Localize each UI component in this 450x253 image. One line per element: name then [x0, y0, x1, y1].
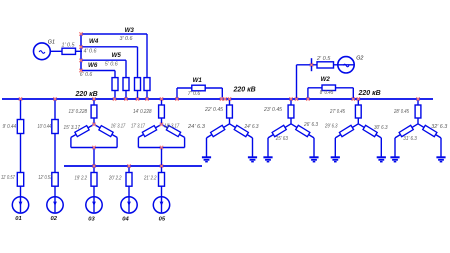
value label 1' 0.5 — [62, 42, 75, 48]
resistor 21 — [159, 173, 165, 187]
wire: left vertical between W3..W6 — [80, 33, 82, 71]
label W4 — [89, 38, 99, 45]
value label 20' 2.2 — [108, 175, 122, 181]
value label 22' 0.45 — [204, 107, 223, 113]
value label 13' ... — [69, 109, 88, 115]
resistor split right — [99, 126, 113, 137]
svg-text:17′ 3.17: 17′ 3.17 — [131, 124, 145, 130]
value label 28' 0.45 — [393, 109, 409, 115]
svg-text:W1: W1 — [193, 77, 203, 84]
junction marks on main bus — [19, 97, 420, 100]
value label 31' 6.3 — [403, 136, 417, 142]
svg-text:2′ 0.5: 2′ 0.5 — [316, 56, 331, 62]
wire: to load 04 — [128, 186, 130, 197]
wire: to load 01 — [20, 186, 22, 197]
svg-text:G2: G2 — [356, 55, 363, 61]
svg-text:14′ 0.228: 14′ 0.228 — [133, 109, 152, 115]
resistor 7 (W1, X=0.6) — [192, 85, 205, 91]
value label 3' 0.6 — [120, 36, 133, 42]
wire: to split node — [93, 118, 95, 124]
wire: resistor 3 to bus — [146, 91, 148, 100]
junction mark T2 split node — [160, 123, 163, 126]
wire: between resistors 02 — [54, 134, 56, 173]
resistor 5 (W5, X=0.6) — [123, 78, 129, 91]
svg-text:W3: W3 — [125, 27, 135, 34]
ground left S2 — [263, 157, 272, 161]
label 02 — [51, 216, 58, 222]
label 04 — [122, 216, 129, 222]
value label 24' 6.3 right — [244, 124, 259, 130]
label 220 kV left — [75, 91, 98, 98]
value label 7' 0.6 — [188, 91, 201, 97]
svg-text:32′ 6.3: 32′ 6.3 — [431, 124, 447, 130]
wire: bus to resistor S4 — [417, 99, 419, 105]
wire: split right branch T2 — [162, 124, 185, 147]
value label 4' 0.6 — [84, 48, 97, 54]
svg-text:10′ 0.44: 10′ 0.44 — [38, 124, 52, 130]
svg-text:6′ 0.6: 6′ 0.6 — [80, 72, 93, 78]
wire: middle bus to resistor 21 — [161, 166, 163, 173]
junction marks on left vertical — [79, 32, 82, 72]
value label 2' 0.5 — [316, 56, 331, 62]
resistor 02 upper — [52, 120, 58, 134]
value label 11&#8242; 0.57 — [1, 175, 15, 181]
resistor 8 (W2, X=0.45) — [322, 85, 336, 91]
wire: to split node T2 — [161, 118, 163, 124]
wire: middle bus to resistor 19 — [93, 166, 95, 173]
label 01 — [15, 216, 21, 222]
svg-text:20′ 2.2: 20′ 2.2 — [108, 175, 122, 181]
ground right S3 — [377, 157, 386, 161]
svg-text:19′ 2.2: 19′ 2.2 — [75, 175, 88, 181]
resistor 3 (W3, X=0.6) — [144, 78, 150, 91]
wire: to load 02 — [54, 186, 56, 197]
ground right S4 — [436, 157, 445, 161]
label W1 — [193, 77, 203, 84]
ground left S1 — [202, 157, 211, 161]
label G1 — [48, 40, 55, 46]
wire: to load 03 — [93, 186, 95, 197]
value label 10&#8242; 0.44 — [38, 124, 52, 130]
svg-text:11′ 0.57: 11′ 0.57 — [1, 175, 15, 181]
value label 12&#8242; 0.57 — [38, 175, 52, 181]
junction mark G2 wire — [310, 63, 313, 66]
resistor 01 lower — [17, 173, 23, 187]
value label 27' 0.45 — [329, 109, 345, 115]
wire: transformer collector — [71, 147, 117, 149]
line W5 wire — [81, 60, 126, 77]
wire: Y right branch S4 — [418, 124, 441, 157]
generator G2 — [338, 57, 354, 73]
wire: split left branch T2 — [138, 124, 161, 147]
wire: collector to middle bus T2 — [161, 148, 163, 167]
resistor Y right S3 — [363, 125, 377, 136]
svg-text:220 кВ: 220 кВ — [75, 91, 98, 98]
svg-text:27′ 0.45: 27′ 0.45 — [329, 109, 345, 115]
wire: bus to transformer resistor T2 — [161, 99, 163, 105]
ground left S4 — [390, 157, 399, 161]
wire: to load 05 — [161, 186, 163, 197]
svg-text:7′ 0.6: 7′ 0.6 — [188, 91, 201, 97]
svg-text:9′ 0.44: 9′ 0.44 — [3, 124, 17, 130]
wire: split left branch — [71, 124, 94, 147]
generator G1 — [34, 43, 51, 60]
svg-text:04: 04 — [122, 216, 129, 222]
wire: bus to resistor S1 — [229, 99, 231, 105]
wire: Y left branch S3 — [335, 124, 358, 157]
svg-text:31′ 6.3: 31′ 6.3 — [403, 136, 417, 142]
svg-text:18′ 3.17: 18′ 3.17 — [164, 124, 179, 130]
value label 24' 63 left — [187, 124, 205, 130]
value label 5' 0.6 — [105, 62, 118, 68]
svg-text:03: 03 — [88, 216, 95, 222]
ground left S3 — [331, 157, 340, 161]
svg-text:13′ 0.228: 13′ 0.228 — [69, 109, 88, 115]
resistor vertical S1 — [227, 105, 233, 118]
wire: Y left branch S2 — [268, 124, 291, 157]
value label 6' 0.6 — [80, 72, 93, 78]
load 03 — [86, 197, 102, 213]
svg-text:28′ 0.45: 28′ 0.45 — [393, 109, 409, 115]
wire: Y right branch S3 — [358, 124, 381, 157]
wire: resistor 6 to bus — [114, 91, 116, 100]
wire: collector to middle bus — [93, 148, 95, 167]
load 04 — [121, 197, 137, 213]
svg-text:1′ 0.5: 1′ 0.5 — [62, 42, 75, 48]
wire: Y right branch S2 — [291, 124, 314, 157]
load 02 — [47, 197, 63, 213]
svg-text:W2: W2 — [321, 76, 331, 83]
svg-text:24′ 6.3: 24′ 6.3 — [187, 124, 205, 130]
value label 30' 6.3 — [374, 125, 388, 131]
wire: Y right branch S1 — [230, 124, 253, 157]
wire: Y left branch S4 — [395, 124, 418, 157]
svg-text:W6: W6 — [88, 62, 98, 69]
label 03 — [88, 216, 95, 222]
wire: bus to resistor S2 — [290, 99, 292, 105]
wire: bus to resistor S3 — [357, 99, 359, 105]
svg-text:5′ 0.6: 5′ 0.6 — [105, 62, 118, 68]
value label 23' 0.45 — [263, 107, 282, 113]
svg-text:8′ 0.45: 8′ 0.45 — [320, 90, 334, 96]
junction mark T1 collector — [92, 146, 95, 149]
junction marks on middle bus — [92, 164, 163, 167]
svg-text:4′ 0.6: 4′ 0.6 — [84, 48, 97, 54]
wire: split right branch — [94, 124, 117, 147]
wire: to Y node S4 — [417, 118, 419, 124]
resistor 20 — [126, 173, 132, 187]
wire: resistor 4 to bus — [137, 91, 139, 100]
wire: G1 to resistor 1 — [50, 50, 62, 52]
resistor 02 lower — [52, 173, 58, 187]
resistor split left — [75, 126, 89, 137]
value label 17' 3.17 — [131, 124, 145, 130]
value label 8' 0.45 — [320, 90, 334, 96]
resistor 13 (transformer HV) — [91, 105, 97, 118]
svg-text:26′ 6.3: 26′ 6.3 — [303, 122, 318, 128]
line W2 wire — [308, 88, 353, 99]
line W6 wire — [81, 71, 115, 78]
resistor 4 (W4, X=0.6) — [135, 78, 141, 91]
resistor Y right S1 — [234, 125, 248, 136]
svg-text:220 кВ: 220 кВ — [233, 86, 256, 93]
resistor Y right S2 — [296, 125, 310, 136]
junction mark T2 collector — [160, 146, 163, 149]
resistor vertical S3 — [355, 105, 361, 118]
wire: transformer collector T2 — [138, 147, 184, 149]
load 05 — [153, 197, 169, 213]
wire: resistor 1 to node — [76, 50, 83, 52]
value label 16' 3.17 — [111, 124, 126, 130]
resistor vertical S2 — [288, 105, 294, 118]
wire: to Y node S1 — [229, 118, 231, 124]
wire: bus to transformer resistor — [93, 99, 95, 105]
resistor vertical S4 — [415, 105, 421, 118]
value label 15' 3.17 — [64, 125, 81, 131]
wire: between resistors 01 — [20, 134, 22, 173]
line W4 wire — [81, 47, 138, 78]
ground right S1 — [248, 157, 257, 161]
svg-text:02: 02 — [51, 216, 58, 222]
svg-text:22′ 0.45: 22′ 0.45 — [204, 107, 223, 113]
value label 21' 2.2 — [143, 175, 157, 181]
label W6 — [88, 62, 98, 69]
svg-text:12′ 0.57: 12′ 0.57 — [38, 175, 52, 181]
wire: bus to resistor 9& — [20, 99, 22, 120]
wire: bus to resistor 10 — [54, 99, 56, 120]
wire: main 220 kV bus — [2, 98, 433, 100]
svg-text:W5: W5 — [112, 52, 122, 59]
resistor 01 upper — [17, 120, 23, 134]
value label 29' 6.3 — [324, 123, 338, 129]
svg-text:21′ 2.2: 21′ 2.2 — [143, 175, 157, 181]
ground right S2 — [309, 157, 318, 161]
svg-text:3′ 0.6: 3′ 0.6 — [120, 36, 133, 42]
label W2 — [321, 76, 331, 83]
resistor 19 — [91, 173, 97, 187]
wire: to Y node S2 — [290, 118, 292, 124]
resistor 1 (X=0.5) — [62, 48, 76, 54]
resistor 14 (transformer HV) T2 — [159, 105, 165, 118]
wire: resistor 2 to G2 — [334, 64, 355, 66]
svg-text:W4: W4 — [89, 38, 99, 45]
resistor Y left S3 — [339, 125, 353, 136]
svg-text:220 кВ: 220 кВ — [358, 90, 381, 97]
junction mark T1 split node — [92, 123, 95, 126]
resistor split left T2 — [142, 126, 156, 137]
label 220 kV center — [233, 86, 256, 93]
wire: to Y node S3 — [357, 118, 359, 124]
label W5 — [112, 52, 122, 59]
wire: G2 drop to bus — [297, 65, 318, 99]
label 220 kV right — [358, 90, 381, 97]
svg-text:16′ 3.17: 16′ 3.17 — [111, 124, 126, 130]
svg-text:05: 05 — [159, 216, 166, 222]
line W1 wire — [177, 88, 222, 99]
label W3 — [125, 27, 135, 34]
value label 14' ... T2 — [133, 109, 152, 115]
label 05 — [159, 216, 166, 222]
svg-text:29′ 6.3: 29′ 6.3 — [324, 123, 338, 129]
wire: Y left branch S1 — [207, 124, 230, 157]
load 01 — [12, 197, 28, 213]
svg-text:30′ 6.3: 30′ 6.3 — [374, 125, 388, 131]
label G2 — [356, 55, 363, 61]
wire: middle 10 kV bus — [64, 165, 202, 167]
value label 9&#8242; 0.44 — [3, 124, 17, 130]
value label 26' 6.3 — [303, 122, 318, 128]
svg-text:23′ 0.45: 23′ 0.45 — [263, 107, 282, 113]
resistor 2 (X=0.5) — [317, 62, 334, 68]
resistor Y left S1 — [211, 125, 225, 136]
wire: resistor 5 to bus — [125, 91, 127, 100]
value label 18' 3.17 — [164, 124, 179, 130]
svg-text:G1: G1 — [48, 40, 55, 46]
wire: middle bus to resistor 20 — [128, 166, 130, 173]
resistor Y right S4 — [423, 125, 437, 136]
resistor 6 (W6, X=0.6) — [112, 78, 118, 91]
line W3 wire — [81, 34, 147, 78]
node tick near G2 — [311, 58, 313, 71]
value label 19' 2.2 — [75, 175, 88, 181]
resistor Y left S4 — [399, 125, 413, 136]
svg-text:25′ 63: 25′ 63 — [275, 136, 288, 142]
value label 32' 63 — [431, 124, 447, 130]
value label 25' 63 — [275, 136, 288, 142]
resistor split right T2 — [166, 126, 180, 137]
svg-text:01: 01 — [15, 216, 21, 222]
svg-text:24′ 6.3: 24′ 6.3 — [244, 124, 259, 130]
resistor Y left S2 — [272, 125, 286, 136]
svg-text:15′ 3.17: 15′ 3.17 — [64, 125, 81, 131]
